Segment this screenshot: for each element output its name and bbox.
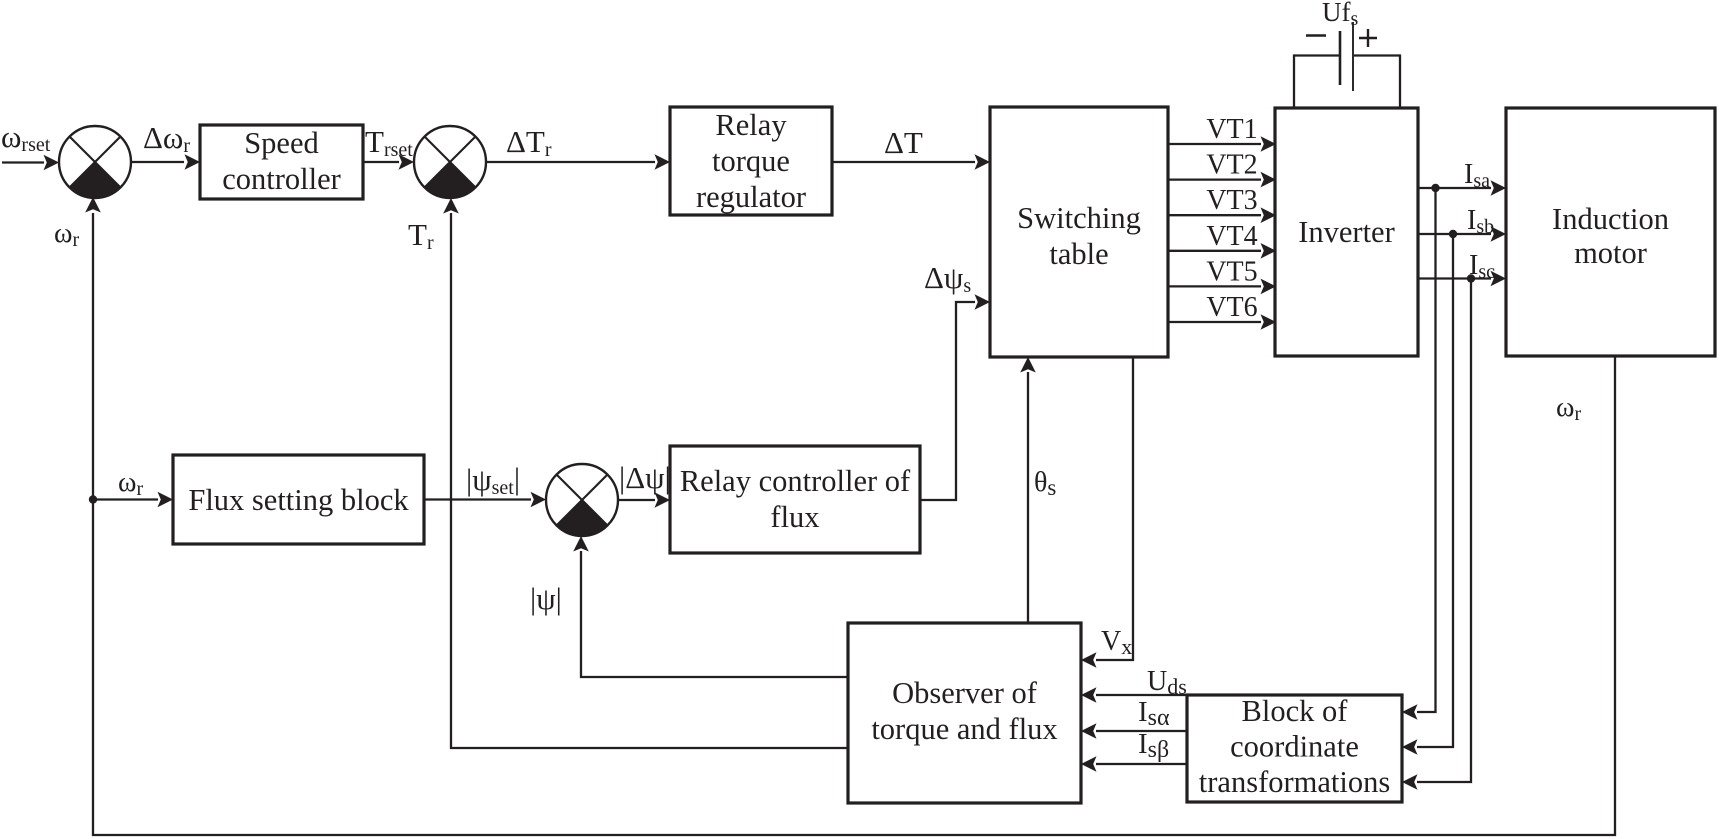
junction node ωr branch — [89, 495, 97, 503]
svg-text:Flux setting block: Flux setting block — [188, 483, 409, 517]
svg-text:ΔT: ΔT — [884, 125, 923, 160]
wire input ωrset arrow into S1 — [2, 155, 59, 171]
svg-text:Δωr: Δωr — [143, 120, 190, 157]
summing junction S1 speed error — [59, 126, 131, 198]
svg-text:Relay controller of: Relay controller of — [680, 464, 911, 498]
battery Ufs supply — [1294, 0, 1400, 108]
wire Isa Inverter to Induction motor — [1418, 159, 1506, 196]
block Relay controller of flux — [670, 446, 920, 553]
svg-text:VT1: VT1 — [1206, 114, 1257, 145]
junction node on Isc — [1467, 274, 1475, 282]
wire Isc Inverter to Induction motor — [1418, 250, 1506, 286]
svg-text:motor: motor — [1574, 236, 1647, 270]
svg-text:|Δψ|: |Δψ| — [619, 460, 671, 495]
block Inverter — [1275, 108, 1418, 356]
wire S3 to Relay controller of flux — [618, 492, 670, 508]
svg-text:regulator: regulator — [696, 180, 806, 214]
svg-text:|ψ|: |ψ| — [530, 581, 562, 616]
block Switching table — [990, 107, 1168, 357]
wire Δψs Relay controller of flux to Switching table — [920, 294, 990, 500]
svg-text:VT2: VT2 — [1206, 150, 1257, 181]
wire Tr Observer to S2 — [443, 198, 848, 748]
wire VT1 Switching table to Inverter — [1168, 114, 1276, 152]
block Induction motor — [1506, 108, 1715, 356]
block Flux setting block — [173, 455, 424, 544]
svg-text:Inverter: Inverter — [1298, 215, 1395, 249]
block Observer of torque and flux — [848, 623, 1081, 803]
svg-text:Block of: Block of — [1242, 694, 1349, 728]
wire |ψ| Observer to S3 — [573, 536, 848, 677]
wire Flux setting block to S3 — [424, 492, 546, 508]
wire VT4 Switching table to Inverter — [1168, 221, 1276, 259]
wire S2 to Relay torque regulator — [486, 154, 670, 170]
block Speed controller — [200, 125, 363, 199]
svg-text:Speed: Speed — [244, 126, 319, 160]
wire Isa drop to Block of coordinate transformations — [1402, 188, 1436, 720]
summing junction S3 flux error — [546, 464, 618, 536]
svg-text:Relay: Relay — [715, 108, 787, 142]
wire Speed controller to S2 — [363, 154, 414, 170]
junction node on Isa — [1431, 184, 1439, 192]
wire VT6 Switching table to Inverter — [1168, 292, 1276, 330]
block Relay torque regulator — [670, 107, 832, 215]
wire VT2 Switching table to Inverter — [1168, 150, 1276, 188]
svg-text:VT6: VT6 — [1206, 292, 1257, 323]
wire Uds to Observer — [1081, 687, 1187, 703]
svg-text:controller: controller — [222, 162, 341, 196]
svg-text:torque: torque — [712, 144, 790, 178]
svg-text:VT4: VT4 — [1206, 221, 1257, 252]
svg-text:coordinate: coordinate — [1230, 730, 1359, 764]
svg-text:table: table — [1049, 237, 1108, 271]
wire θs Observer to Switching table — [1020, 357, 1036, 623]
wire VT5 Switching table to Inverter — [1168, 256, 1276, 294]
svg-text:VT3: VT3 — [1206, 185, 1257, 216]
wire VT3 Switching table to Inverter — [1168, 185, 1276, 223]
wire Isb Inverter to Induction motor — [1418, 205, 1506, 242]
wire ωr to Flux setting block — [93, 492, 173, 508]
svg-text:flux: flux — [770, 500, 819, 534]
wire Isα Block to Observer — [1081, 723, 1187, 739]
wire Vx Switching table to Observer — [1081, 357, 1133, 668]
wire Relay torque regulator to Switching table — [832, 154, 990, 170]
wire ωr feedback from Induction motor to S1 — [85, 197, 1615, 835]
svg-text:transformations: transformations — [1199, 765, 1390, 799]
svg-text:VT5: VT5 — [1206, 256, 1257, 287]
junction node on Isb — [1449, 230, 1457, 238]
svg-text:Switching: Switching — [1017, 201, 1141, 235]
wire Isc drop to Block of coordinate transformations — [1402, 279, 1471, 790]
wire S1 to Speed controller — [131, 154, 200, 170]
svg-text:Observer of: Observer of — [892, 676, 1038, 710]
svg-text:torque and flux: torque and flux — [871, 712, 1057, 746]
wire Isb drop to Block of coordinate transformations — [1402, 234, 1453, 755]
svg-text:Induction: Induction — [1552, 202, 1669, 236]
wire Isβ Block to Observer — [1081, 756, 1187, 772]
block Block of coordinate transformations — [1187, 694, 1402, 802]
summing junction S2 torque error — [414, 126, 486, 198]
